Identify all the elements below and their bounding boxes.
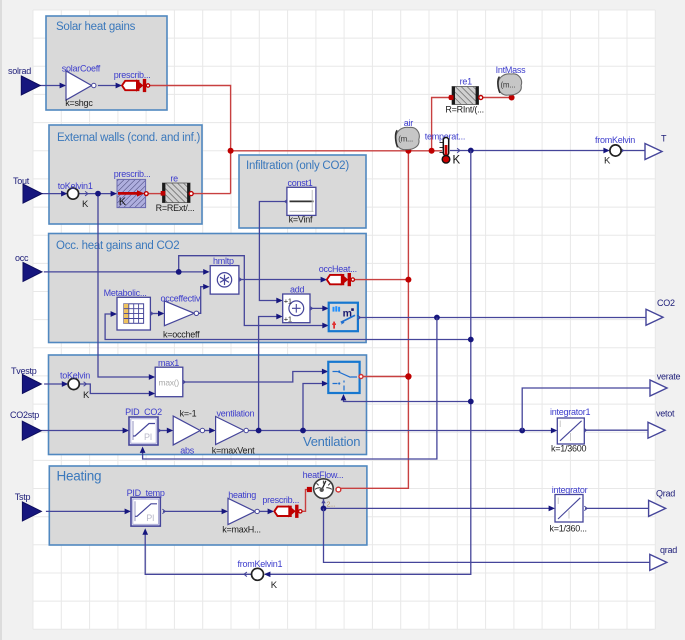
svg-text:prescrib...: prescrib... <box>114 169 151 179</box>
svg-text:External walls (cond. and inf.: External walls (cond. and inf.) <box>57 132 201 144</box>
svg-text:occHeat...: occHeat... <box>319 264 357 274</box>
node: switch output junction <box>405 373 411 379</box>
wire: ventilation rate branch to switch lower input <box>303 384 327 431</box>
svg-text:re: re <box>170 174 178 184</box>
junction node: vent rate to switch <box>300 428 306 434</box>
node: IntMass connection <box>509 95 515 101</box>
junction node: Q flow <box>321 506 327 512</box>
combi table Metabolic... <box>117 297 150 330</box>
junction node: temperature to switch control <box>468 399 474 405</box>
svg-text:K: K <box>453 155 461 167</box>
gain abs k=-1 <box>173 416 200 445</box>
prescribedHeatFlow prescrib... (heating) <box>274 507 291 516</box>
svg-text:T: T <box>661 134 667 144</box>
svg-text:heating: heating <box>228 490 256 500</box>
input connector solrad <box>21 76 40 95</box>
wire: max1 output to switch upper input <box>182 380 185 385</box>
wire: occ branch over to CO2 flow block lower input <box>179 256 327 326</box>
svg-text:Qrad: Qrad <box>656 489 675 499</box>
wire: heating prescribedHeatFlow to heatFlow sensor (red) <box>301 490 307 512</box>
junction node: toKelvin1 output <box>95 191 101 197</box>
fromKelvin converter <box>610 145 621 156</box>
junction node: vent rate to add <box>256 428 262 434</box>
svg-text:K: K <box>83 390 90 401</box>
svg-text:verate: verate <box>657 372 681 382</box>
output connector Qrad <box>649 500 666 516</box>
svg-text:k=1/360...: k=1/360... <box>550 524 587 534</box>
svg-text:occeffectiv: occeffectiv <box>161 294 201 304</box>
svg-text:Tstp: Tstp <box>15 492 31 502</box>
input connector Tout <box>23 184 42 203</box>
group box: Occ. heat gains and CO2 <box>49 234 367 343</box>
svg-text:Solar heat gains: Solar heat gains <box>56 21 136 33</box>
wire: hmltp product to occHeat prescribedHeatFlow <box>239 277 242 282</box>
junction node: zone temperature Kelvin <box>468 148 474 154</box>
wire: add output to CO2 flow block upper input <box>310 306 313 311</box>
wire: switch output to zone vertical (red) <box>363 376 409 378</box>
svg-text:2...: 2... <box>327 502 336 509</box>
wire: zone vertical x=408 down to heatFlow sensor (red) <box>341 151 408 489</box>
junction node: occ signal <box>176 269 182 275</box>
node: occHeat junction <box>405 277 411 283</box>
svg-text:vetot: vetot <box>656 409 675 419</box>
svg-text:fromKelvin: fromKelvin <box>595 135 635 145</box>
svg-text:k=Vinf: k=Vinf <box>289 215 313 225</box>
svg-text:IntMass: IntMass <box>496 65 527 75</box>
thermal resistor re R=RExt <box>162 183 190 203</box>
wire: re output to zone vertical (red) <box>193 193 231 195</box>
product block hmltp <box>210 266 239 295</box>
svg-text:re1: re1 <box>460 77 473 87</box>
wire: re1 right port to IntMass (red) <box>483 97 512 99</box>
output connector CO2 <box>646 309 663 325</box>
wire: Metabolic table to occeffectiv gain <box>150 311 153 316</box>
svg-text:PI: PI <box>146 513 154 523</box>
heat capacitor IntMass <box>498 74 521 95</box>
svg-text:add: add <box>290 285 305 295</box>
wire: zone node horizontal to thermometer (red) <box>231 150 442 152</box>
svg-text:integrator: integrator <box>552 485 588 495</box>
svg-text:CO2stp: CO2stp <box>10 410 39 420</box>
wire: solrad input to solarCoeff gain <box>40 85 65 87</box>
group box: Ventilation <box>49 355 367 455</box>
svg-text:+1: +1 <box>284 315 292 324</box>
wire: prescribedTemperature output to re (red) <box>148 193 162 195</box>
wire: fromKelvin to T output <box>621 148 624 153</box>
adder block add <box>283 294 310 323</box>
wire: solarCoeff gain to prescribedHeatFlow <box>98 85 120 87</box>
integrator k=1/360... <box>555 495 583 523</box>
node: zone heat junction at solar drop <box>228 148 234 154</box>
wire: integrator1 output to vetot output <box>584 428 587 433</box>
gain solarCoeff k=shgc <box>66 71 92 100</box>
integrator1 k=1/3600 <box>557 418 584 444</box>
group box: Solar heat gains <box>46 16 167 110</box>
PID controller PID_temp <box>131 497 160 526</box>
wire: re1 left port down to zone node (red) <box>432 98 451 151</box>
svg-text:CO2: CO2 <box>657 298 675 308</box>
input connector occ <box>23 262 42 281</box>
toKelvin converter (Tvestp) <box>68 378 79 389</box>
svg-text:K: K <box>82 199 89 210</box>
wire: Tout Kelvin junction down to max1 upper input <box>98 194 154 377</box>
svg-text:(m...: (m... <box>398 135 413 144</box>
wire: Tvestp input to toKelvin <box>44 383 67 385</box>
group box: External walls (cond. and inf.) <box>49 125 202 224</box>
input connector Tstp <box>22 502 41 521</box>
wire: occHeat output to zone vertical (red) <box>354 279 408 281</box>
svg-text:Tout: Tout <box>13 176 30 186</box>
wire: CO2stp input to PID_CO2 <box>41 430 128 432</box>
wire: ventilation rate up to add lower input <box>259 317 281 431</box>
PID controller PID_CO2 <box>129 417 158 445</box>
svg-text:const1: const1 <box>288 178 313 188</box>
wire: const1 to add upper input <box>285 199 288 204</box>
wire: Q flow branch to qrad output <box>324 508 650 562</box>
node: re1 drop connection <box>429 148 435 154</box>
svg-text:PI: PI <box>144 432 152 442</box>
wire: thermometer output to fromKelvin <box>457 148 460 153</box>
svg-text:hmltp: hmltp <box>213 256 234 266</box>
svg-text:K: K <box>604 156 611 167</box>
svg-text:air: air <box>404 118 414 128</box>
svg-text:k=shgc: k=shgc <box>65 98 93 108</box>
svg-text:Tvestp: Tvestp <box>11 366 37 376</box>
svg-text:(m...: (m... <box>501 81 516 90</box>
svg-text:k=maxH...: k=maxH... <box>222 525 261 535</box>
gain occeffectiv k=occheff <box>164 301 194 326</box>
wire: vent rate up to verate output <box>522 388 650 431</box>
svg-text:PID_temp: PID_temp <box>127 488 165 498</box>
svg-text:+1: +1 <box>284 296 292 305</box>
wire: heating gain to prescribedHeatFlow <box>259 510 272 512</box>
svg-text:PID_CO2: PID_CO2 <box>125 407 162 417</box>
output connector qrad <box>650 554 667 570</box>
svg-text:abs: abs <box>180 446 195 456</box>
svg-text:k=1/3600: k=1/3600 <box>551 444 587 454</box>
svg-text:ventilation: ventilation <box>217 409 255 419</box>
svg-text:R=RInt/(...: R=RInt/(... <box>445 105 484 115</box>
wire: toKelvin to max1 lower input <box>84 382 87 387</box>
input connector Tvestp <box>22 375 41 394</box>
wire: abs gain to ventilation gain <box>205 430 214 432</box>
svg-text:k=maxVent: k=maxVent <box>212 446 255 456</box>
output connector T <box>645 144 662 160</box>
max block max1 <box>155 367 183 397</box>
svg-text:K: K <box>119 196 127 208</box>
CO2 mass flow block (m-dot) <box>329 303 358 332</box>
fromKelvin1 converter <box>252 568 264 580</box>
wire: toKelvin1 to prescribedTemperature with junction <box>85 191 88 196</box>
junction node: vent rate to verate <box>519 428 525 434</box>
wire: fromKelvin1 output to PID_temp feedback <box>244 572 247 577</box>
wire: zone temperature to Metabolic table input <box>105 314 471 340</box>
wire: zone temperature to switch control input <box>344 396 471 402</box>
prescribedHeatFlow occHeat... <box>327 275 344 284</box>
output connector verate <box>650 380 667 396</box>
gain ventilation k=maxVent <box>216 417 244 445</box>
prescribedHeatFlow prescrib... (solar) <box>122 81 139 90</box>
prescribedTemperature block (hatched blue) <box>117 179 146 207</box>
svg-text:Ventilation: Ventilation <box>303 434 360 449</box>
svg-text:toKelvin: toKelvin <box>60 371 90 381</box>
wire: Tstp input to PID_temp <box>46 510 130 512</box>
svg-text:prescrib...: prescrib... <box>262 495 299 505</box>
node: air capacitor connection <box>405 148 411 154</box>
svg-text:occ: occ <box>15 253 29 263</box>
wire: PID_CO2 to abs gain <box>158 428 161 433</box>
svg-text:Occ. heat gains and CO2: Occ. heat gains and CO2 <box>56 240 179 252</box>
switch block (ventilation selector) <box>328 362 359 393</box>
constant block const1 k=Vinf <box>287 187 316 215</box>
gain heating k=maxH... <box>228 498 255 524</box>
svg-text:max1: max1 <box>158 358 179 368</box>
svg-text:toKelvin1: toKelvin1 <box>58 181 93 191</box>
output connector vetot <box>648 422 665 438</box>
wire: heatFlow sensor Q to integrator <box>323 499 325 509</box>
node: re1 left port <box>448 95 453 100</box>
svg-text:solrad: solrad <box>8 66 31 76</box>
node: re left port <box>161 191 166 196</box>
svg-text:k=occheff: k=occheff <box>163 330 200 340</box>
wire: ventilation gain to integrator1 and outputs <box>248 430 555 432</box>
group box: Infiltration (only CO2) <box>239 155 366 228</box>
wire: integrator output to Qrad output <box>584 506 587 511</box>
wire: occeffectiv gain to hmltp lower input <box>199 287 208 314</box>
group box: Heating <box>49 466 367 545</box>
svg-text:K: K <box>271 580 278 591</box>
svg-text:max(): max() <box>159 378 180 388</box>
svg-text:qrad: qrad <box>660 545 677 555</box>
junction node: temperature to Metabolic <box>468 337 474 343</box>
wire: zone temperature vertical down to fromKelvin1 <box>265 151 471 575</box>
toKelvin1 converter <box>67 188 78 199</box>
input connector CO2stp <box>22 421 41 440</box>
svg-text:prescrib...: prescrib... <box>114 70 151 80</box>
svg-text:solarCoeff: solarCoeff <box>62 64 101 74</box>
svg-text:k=-1: k=-1 <box>180 409 197 419</box>
svg-text:integrator1: integrator1 <box>550 407 591 417</box>
wire: occ input to hmltp upper input <box>44 271 208 273</box>
svg-text:Metabolic...: Metabolic... <box>104 288 147 298</box>
svg-text:R=RExt/...: R=RExt/... <box>156 203 195 213</box>
svg-text:Infiltration (only CO2): Infiltration (only CO2) <box>246 160 349 172</box>
wire: Tout input to toKelvin1 <box>42 193 66 195</box>
heat capacitor air <box>396 127 419 149</box>
wire: PID_temp to heating gain <box>162 509 165 514</box>
svg-text:Heating: Heating <box>57 469 102 484</box>
wire: solar prescribedHeatFlow output to zone node (red) <box>150 86 231 194</box>
junction node: CO2 signal <box>434 315 440 321</box>
wire: CO2 flow block output to CO2 output <box>357 315 360 320</box>
wire: CO2 signal down and back to PID_CO2 feedback <box>143 318 437 460</box>
svg-text:fromKelvin1: fromKelvin1 <box>238 559 283 569</box>
thermal resistor re1 R=RInt <box>452 87 479 105</box>
